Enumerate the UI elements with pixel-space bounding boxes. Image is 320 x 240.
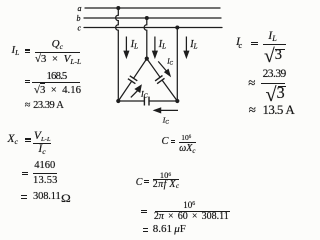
svg-text:c: c [78, 23, 82, 32]
svg-text:a: a [78, 4, 82, 13]
svg-text:IC: IC [162, 116, 170, 126]
svg-text:IL: IL [158, 39, 166, 50]
svg-text:b: b [77, 14, 81, 23]
svg-text:IL: IL [189, 39, 197, 50]
svg-text:IL: IL [130, 39, 138, 50]
svg-text:IC: IC [166, 57, 173, 66]
svg-text:IC: IC [140, 90, 149, 100]
